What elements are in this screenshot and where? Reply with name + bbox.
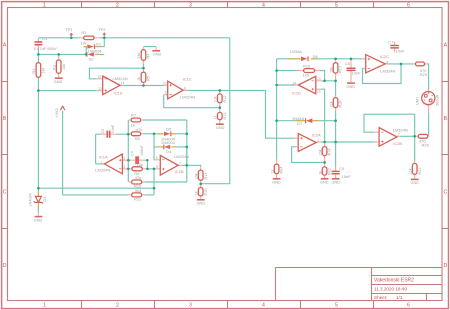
svg-text:1: 1 — [43, 302, 46, 308]
svg-text:10nF: 10nF — [396, 48, 406, 53]
svg-text:R24: R24 — [280, 167, 284, 174]
svg-text:C4: C4 — [130, 151, 134, 156]
svg-text:1: 1 — [317, 138, 319, 142]
svg-text:3: 3 — [189, 2, 192, 8]
svg-text:5: 5 — [335, 302, 338, 308]
svg-text:B: B — [3, 116, 7, 122]
svg-text:R3: R3 — [52, 65, 56, 70]
svg-text:7: 7 — [398, 133, 400, 137]
svg-text:Sheet:: Sheet: — [374, 295, 387, 300]
svg-text:R12: R12 — [223, 96, 227, 103]
svg-text:R15: R15 — [204, 189, 208, 196]
svg-text:11.3.2020 18:49: 11.3.2020 18:49 — [374, 286, 407, 291]
svg-text:GND: GND — [197, 202, 206, 206]
svg-text:10k: 10k — [318, 149, 322, 155]
svg-text:8: 8 — [184, 87, 186, 91]
svg-text:15k: 15k — [329, 67, 333, 73]
svg-text:GND: GND — [34, 218, 43, 222]
svg-text:D6: D6 — [313, 54, 319, 59]
svg-text:D: D — [3, 263, 7, 269]
svg-text:10k: 10k — [137, 162, 143, 167]
svg-text:LM324N: LM324N — [174, 154, 189, 159]
svg-text:LM324N: LM324N — [393, 127, 408, 132]
svg-text:IC2A: IC2A — [312, 133, 321, 138]
svg-text:IC1A: IC1A — [99, 155, 108, 160]
svg-text:14: 14 — [121, 82, 125, 86]
svg-text:47k: 47k — [136, 127, 142, 132]
svg-text:10k: 10k — [214, 96, 218, 102]
svg-text:TP2: TP2 — [98, 27, 106, 32]
svg-text:GND: GND — [320, 181, 329, 185]
svg-text:GND: GND — [153, 53, 162, 57]
svg-text:1N34A: 1N34A — [290, 49, 303, 54]
svg-text:B: B — [444, 116, 448, 122]
svg-text:R23: R23 — [420, 72, 428, 77]
svg-text:LM324N: LM324N — [113, 76, 128, 81]
svg-text:R14: R14 — [204, 173, 208, 180]
svg-text:D: D — [444, 263, 448, 269]
svg-text:2: 2 — [116, 2, 119, 8]
svg-text:1k5: 1k5 — [303, 72, 310, 77]
svg-text:R19: R19 — [328, 149, 332, 156]
svg-text:1/1: 1/1 — [396, 295, 403, 300]
svg-text:22k: 22k — [329, 101, 333, 107]
svg-text:IC2C: IC2C — [380, 54, 389, 59]
svg-text:GND: GND — [411, 181, 420, 185]
svg-text:8: 8 — [386, 60, 388, 64]
svg-text:R5: R5 — [147, 76, 151, 81]
svg-text:13: 13 — [98, 75, 102, 79]
svg-text:2: 2 — [116, 302, 119, 308]
svg-text:3: 3 — [189, 302, 192, 308]
svg-text:UM1: UM1 — [416, 97, 420, 105]
svg-text:1k: 1k — [131, 123, 135, 128]
svg-text:6: 6 — [407, 2, 410, 8]
svg-text:GND: GND — [54, 80, 63, 84]
svg-text:4: 4 — [262, 302, 265, 308]
svg-text:R16: R16 — [303, 63, 311, 68]
svg-text:IC1C: IC1C — [183, 76, 192, 81]
svg-text:1k: 1k — [137, 77, 141, 81]
svg-text:Vakedonski ESR2: Vakedonski ESR2 — [374, 278, 414, 284]
svg-text:C2: C2 — [101, 129, 105, 134]
svg-text:3: 3 — [124, 157, 126, 161]
svg-text:GND: GND — [332, 181, 341, 185]
svg-text:C6: C6 — [339, 166, 345, 171]
svg-text:R11: R11 — [134, 197, 142, 202]
svg-text:4: 4 — [262, 2, 265, 8]
svg-text:10k: 10k — [194, 173, 198, 179]
svg-text:A: A — [3, 42, 7, 48]
svg-text:D4: D4 — [166, 149, 172, 154]
svg-text:1M: 1M — [137, 53, 141, 58]
svg-text:GND: GND — [216, 126, 225, 130]
svg-text:1: 1 — [43, 2, 46, 8]
svg-text:1k: 1k — [270, 169, 274, 173]
svg-text:LM324N: LM324N — [95, 167, 110, 172]
svg-text:5: 5 — [156, 156, 158, 160]
svg-text:R4: R4 — [147, 54, 151, 59]
svg-text:500uA: 500uA — [435, 94, 439, 105]
svg-text:1N4004: 1N4004 — [88, 48, 103, 53]
svg-text:R21: R21 — [418, 168, 422, 175]
svg-text:1k: 1k — [214, 115, 218, 119]
svg-text:D7: D7 — [297, 121, 303, 126]
svg-text:R17: R17 — [339, 66, 343, 73]
svg-text:R8: R8 — [135, 136, 141, 141]
svg-text:10nF: 10nF — [352, 71, 362, 76]
svg-text:D5: D5 — [166, 126, 172, 131]
svg-text:C5: C5 — [345, 61, 351, 66]
svg-text:1N4004: 1N4004 — [29, 193, 33, 206]
svg-text:C1: C1 — [42, 36, 48, 41]
svg-text:10k: 10k — [62, 64, 66, 70]
svg-text:LM324N: LM324N — [380, 69, 395, 74]
svg-text:1W: 1W — [81, 41, 87, 46]
svg-text:10: 10 — [163, 82, 167, 86]
svg-text:R20: R20 — [422, 143, 430, 148]
svg-text:14: 14 — [293, 81, 297, 85]
svg-text:D3: D3 — [43, 197, 47, 202]
svg-text:10nF: 10nF — [111, 124, 115, 133]
svg-text:C7: C7 — [388, 39, 394, 44]
svg-text:1N4004: 1N4004 — [161, 140, 176, 145]
svg-text:R18: R18 — [339, 101, 343, 108]
svg-text:12: 12 — [317, 90, 321, 94]
svg-text:22k: 22k — [408, 168, 412, 174]
svg-text:9: 9 — [165, 91, 167, 95]
svg-text:GND: GND — [347, 85, 356, 89]
svg-text:IC1B: IC1B — [175, 169, 184, 174]
svg-text:1M: 1M — [42, 68, 46, 73]
svg-text:IC1D: IC1D — [114, 91, 123, 96]
svg-text:0.47uF 600V: 0.47uF 600V — [34, 46, 57, 51]
svg-text:1k: 1k — [318, 171, 322, 175]
svg-text:LM324N: LM324N — [180, 94, 195, 99]
svg-text:1N34A: 1N34A — [292, 116, 305, 121]
svg-text:R22: R22 — [328, 168, 332, 175]
svg-text:3k3: 3k3 — [135, 188, 142, 193]
svg-text:IC2D: IC2D — [292, 90, 301, 95]
svg-text:A: A — [444, 42, 448, 48]
svg-text:+3V3: +3V3 — [55, 109, 59, 118]
svg-text:1k: 1k — [194, 191, 198, 195]
svg-text:IC2B: IC2B — [393, 141, 402, 146]
svg-text:6: 6 — [407, 302, 410, 308]
svg-text:100nF: 100nF — [140, 145, 144, 156]
svg-text:6: 6 — [156, 165, 158, 169]
svg-text:R2: R2 — [32, 69, 36, 74]
svg-text:D1: D1 — [96, 41, 102, 46]
svg-text:13: 13 — [317, 77, 321, 81]
svg-text:D2: D2 — [89, 57, 95, 62]
svg-text:47k: 47k — [135, 175, 141, 180]
svg-text:2: 2 — [124, 165, 126, 169]
svg-text:C: C — [3, 189, 7, 195]
svg-text:R7: R7 — [131, 112, 137, 117]
svg-text:7: 7 — [179, 162, 181, 166]
svg-text:TP1: TP1 — [65, 27, 73, 32]
svg-text:12: 12 — [99, 87, 103, 91]
svg-text:5: 5 — [335, 2, 338, 8]
svg-text:1: 1 — [101, 160, 103, 164]
svg-text:R1: R1 — [82, 30, 88, 35]
svg-text:R13: R13 — [223, 113, 227, 120]
svg-text:C: C — [444, 189, 448, 195]
svg-text:10nF: 10nF — [342, 174, 352, 179]
svg-text:GND: GND — [272, 181, 281, 185]
